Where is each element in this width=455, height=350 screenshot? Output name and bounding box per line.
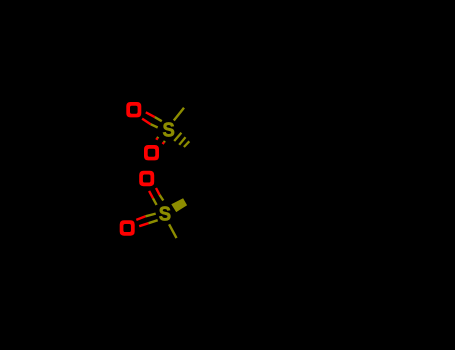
- svg-text:S: S: [159, 203, 171, 226]
- svg-text:S: S: [162, 118, 174, 141]
